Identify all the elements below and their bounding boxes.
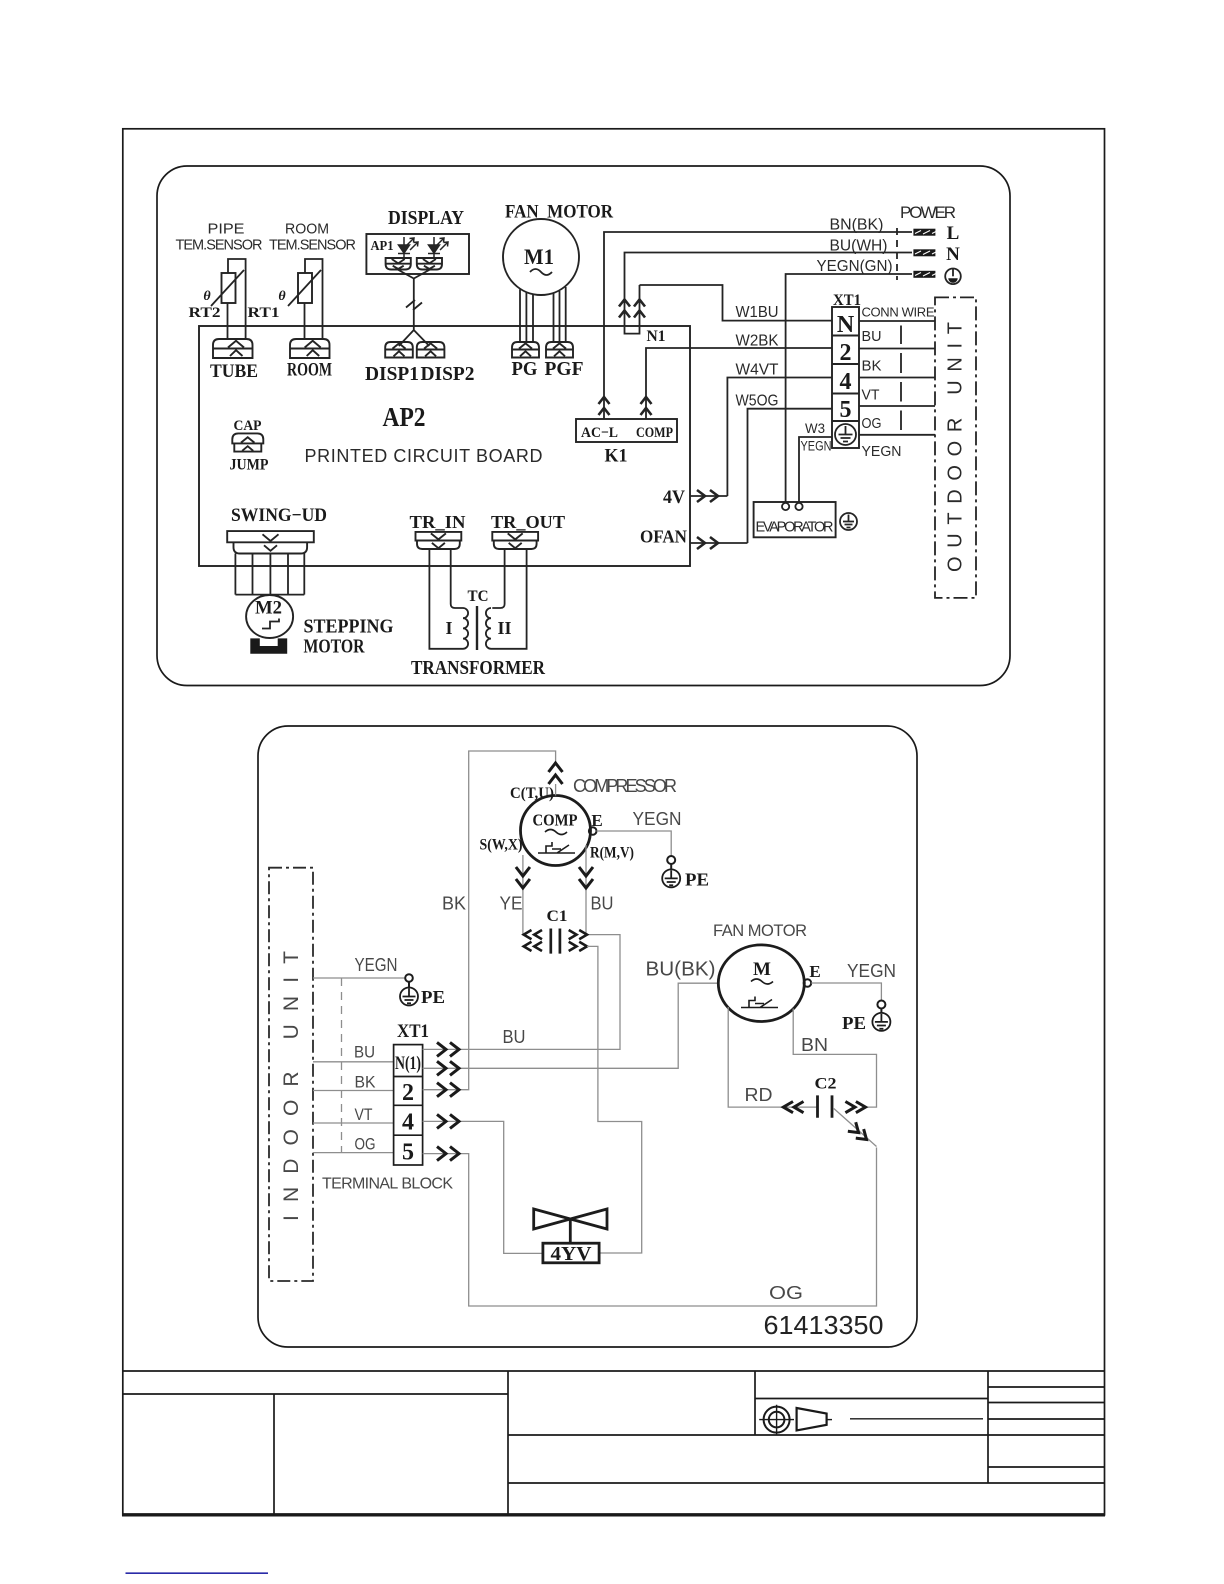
svg-text:MOTOR: MOTOR bbox=[304, 636, 365, 658]
svg-text:DISPLAY: DISPLAY bbox=[388, 207, 464, 229]
svg-text:L: L bbox=[947, 223, 960, 244]
wire RT1 top loop bbox=[305, 259, 323, 339]
svg-text:YEGN: YEGN bbox=[801, 439, 832, 454]
svg-text:OG: OG bbox=[355, 1135, 376, 1154]
title block right column row line 4 bbox=[988, 1466, 1105, 1468]
wire VT to 4YV bbox=[423, 1121, 543, 1253]
wire compressor R to C1 bbox=[585, 845, 587, 935]
wire BU(WH) power N bbox=[625, 253, 913, 300]
evaporator box bbox=[754, 502, 836, 537]
svg-text:N(1): N(1) bbox=[395, 1053, 421, 1074]
connector DISP2 bbox=[417, 342, 445, 358]
svg-text:BU: BU bbox=[354, 1043, 375, 1062]
svg-text:STEPPING: STEPPING bbox=[304, 616, 394, 638]
svg-text:YEGN(GN): YEGN(GN) bbox=[817, 258, 893, 275]
PE terminal fan bbox=[877, 1001, 885, 1009]
title block rule line bbox=[850, 1418, 983, 1420]
svg-text:2: 2 bbox=[402, 1080, 414, 1106]
connector PGF bbox=[546, 342, 573, 358]
svg-text:EVAPORATOR: EVAPORATOR bbox=[756, 520, 834, 536]
LED D1 bbox=[398, 237, 410, 258]
svg-text:TEM.SENSOR: TEM.SENSOR bbox=[176, 238, 263, 254]
svg-text:VT: VT bbox=[355, 1105, 373, 1124]
wire OG to C2 bbox=[423, 1148, 877, 1307]
svg-text:RT2: RT2 bbox=[189, 305, 221, 321]
title block vertical x988 bbox=[987, 1371, 989, 1483]
svg-text:TR_OUT: TR_OUT bbox=[491, 512, 565, 532]
svg-text:BU: BU bbox=[862, 329, 882, 345]
svg-text:TUBE: TUBE bbox=[210, 361, 258, 382]
svg-text:61413350: 61413350 bbox=[764, 1310, 884, 1340]
svg-text:POWER: POWER bbox=[900, 203, 956, 222]
connector N1 bracket bbox=[625, 327, 640, 334]
indoor unit diagram rounded enclosure bbox=[157, 166, 1010, 686]
svg-text:AP1: AP1 bbox=[371, 239, 394, 254]
title block right column row line 3 bbox=[988, 1418, 1105, 1420]
PE earth symbol compressor bbox=[662, 869, 680, 887]
wire RD fan to C2 bbox=[728, 1007, 817, 1107]
XT1 earth cell symbol bbox=[835, 424, 856, 445]
C2 right plug arrows bbox=[845, 1102, 865, 1113]
display plug upper left bbox=[386, 258, 411, 270]
title block second line bbox=[123, 1393, 508, 1395]
display plug upper right bbox=[417, 258, 442, 270]
wire BN(BK) power L bbox=[604, 232, 912, 419]
outdoor unit dash-dot box bbox=[935, 297, 976, 598]
svg-text:θ: θ bbox=[278, 289, 286, 304]
svg-text:RT1: RT1 bbox=[248, 305, 280, 321]
wire BN fan to C2 bbox=[793, 1009, 876, 1108]
svg-text:TRANSFORMER: TRANSFORMER bbox=[411, 657, 545, 679]
evaporator terminal circles bbox=[782, 503, 789, 510]
svg-text:XT1: XT1 bbox=[397, 1021, 429, 1042]
wire display merge V bbox=[398, 270, 430, 327]
C2 left plug arrows bbox=[783, 1102, 803, 1113]
svg-text:TR_IN: TR_IN bbox=[410, 512, 466, 532]
display board AP1 box bbox=[366, 234, 469, 274]
svg-text:BK: BK bbox=[355, 1073, 377, 1092]
wire RT2 top loop bbox=[228, 259, 246, 339]
wire C1 bottom to 4YV bbox=[587, 946, 642, 1253]
svg-text:TC: TC bbox=[468, 588, 489, 605]
connector TR_IN bbox=[416, 532, 462, 549]
projection symbol cone frustum bbox=[797, 1408, 827, 1430]
svg-text:W2BK: W2BK bbox=[736, 333, 779, 350]
svg-text:M2: M2 bbox=[255, 598, 282, 619]
power terminal bar L bbox=[913, 229, 935, 236]
C1 right plug arrows bbox=[569, 930, 587, 951]
title block right column row line 1 bbox=[988, 1386, 1105, 1388]
arrows XT1 N1 row2 bbox=[437, 1061, 459, 1075]
svg-text:TEM.SENSOR: TEM.SENSOR bbox=[269, 238, 356, 254]
title block vertical x508 bbox=[507, 1371, 509, 1515]
K1 input arrows bbox=[599, 397, 652, 415]
arrows XT1 N1 row1 bbox=[437, 1042, 459, 1056]
wire OFAN with arrows bbox=[690, 542, 748, 544]
svg-text:K1: K1 bbox=[605, 446, 628, 467]
thermistor RT1 bbox=[298, 273, 312, 303]
power earth symbol bbox=[945, 269, 961, 285]
svg-text:CAP: CAP bbox=[234, 418, 262, 434]
svg-text:W5OG: W5OG bbox=[736, 393, 779, 410]
svg-text:OFAN: OFAN bbox=[640, 527, 687, 547]
COMP protector glyph bbox=[538, 842, 575, 853]
svg-text:PE: PE bbox=[842, 1013, 866, 1033]
svg-text:N: N bbox=[837, 312, 855, 338]
page frame bottom thick line bbox=[122, 1513, 1105, 1516]
svg-text:5: 5 bbox=[840, 397, 852, 423]
svg-text:M: M bbox=[753, 959, 771, 980]
arrows XT1 cell4 bbox=[437, 1114, 459, 1128]
svg-text:M1: M1 bbox=[524, 244, 554, 269]
svg-text:COMP: COMP bbox=[636, 425, 673, 441]
wire YEGN fan earth bbox=[811, 983, 881, 1000]
terminal block XT1 outdoor bbox=[394, 1045, 423, 1165]
connector ROOM bbox=[290, 339, 330, 358]
svg-text:XT1: XT1 bbox=[833, 292, 861, 309]
power cable dashed tie bbox=[896, 228, 898, 280]
wire RT2 left pin bbox=[227, 303, 229, 339]
svg-text:COMP: COMP bbox=[533, 811, 578, 830]
wires M1 to PG PGF bbox=[520, 287, 566, 342]
compressor E terminal circle bbox=[589, 827, 597, 835]
svg-text:2: 2 bbox=[840, 340, 852, 366]
conn wire tie marks bbox=[900, 326, 902, 431]
svg-text:C(T,U): C(T,U) bbox=[510, 785, 554, 802]
svg-text:PG: PG bbox=[512, 358, 538, 380]
projection symbol axis tick bbox=[827, 1419, 832, 1421]
svg-text:CONN WIRE: CONN WIRE bbox=[862, 305, 935, 320]
wire OG diagonal to C2 bbox=[834, 1109, 877, 1147]
svg-text:YEGN: YEGN bbox=[862, 444, 902, 460]
4-way valve bowtie bbox=[534, 1209, 607, 1229]
wire BU indoor bbox=[313, 1061, 394, 1063]
relay K1 box bbox=[576, 419, 677, 442]
M2 step glyph bbox=[262, 619, 279, 629]
svg-text:BN(BK): BN(BK) bbox=[830, 217, 884, 234]
svg-text:DISP2: DISP2 bbox=[421, 363, 475, 385]
title block projection cell divider bbox=[755, 1398, 988, 1400]
svg-text:PIPE: PIPE bbox=[208, 222, 245, 238]
svg-text:BN: BN bbox=[801, 1035, 828, 1055]
svg-text:N: N bbox=[946, 244, 960, 265]
svg-text:C1: C1 bbox=[547, 908, 568, 925]
capacitor C2 plates bbox=[818, 1095, 833, 1117]
svg-text:BK: BK bbox=[862, 359, 882, 375]
4YV stem bbox=[569, 1219, 572, 1243]
wire VT indoor bbox=[313, 1122, 394, 1124]
svg-text:YE: YE bbox=[500, 894, 523, 914]
arrows XT1 cell2 bbox=[437, 1083, 459, 1097]
indoor unit dash-dot box bbox=[269, 868, 313, 1281]
svg-text:RD: RD bbox=[745, 1085, 773, 1105]
wire W2BK to K1 COMP bbox=[646, 348, 832, 419]
svg-text:PE: PE bbox=[685, 870, 709, 890]
blue underline mark bottom left bbox=[126, 1572, 269, 1574]
svg-text:4: 4 bbox=[402, 1110, 414, 1136]
arrows R pin bbox=[579, 867, 593, 888]
indoor cable dashed tie bbox=[341, 978, 343, 1153]
svg-text:PGF: PGF bbox=[545, 358, 584, 380]
projection symbol crosshair bbox=[759, 1405, 794, 1435]
svg-text:FAN MOTOR: FAN MOTOR bbox=[505, 202, 613, 223]
projection symbol circles bbox=[764, 1407, 790, 1433]
fan E terminal circle bbox=[804, 979, 812, 987]
PE earth symbol indoor bbox=[400, 988, 418, 1006]
transformer core bbox=[476, 606, 478, 650]
M tilde bbox=[751, 979, 773, 984]
fan motor circle bbox=[718, 945, 804, 1022]
4YV coil box bbox=[543, 1243, 599, 1263]
transformer TC primary wiring bbox=[429, 549, 463, 649]
svg-text:DISP1: DISP1 bbox=[365, 363, 419, 385]
svg-text:W4VT: W4VT bbox=[736, 362, 779, 379]
svg-text:W3: W3 bbox=[805, 421, 825, 436]
wire W5OG from OFAN bbox=[748, 409, 833, 543]
title block vertical x274 bbox=[273, 1394, 275, 1515]
title block right column row line 2 bbox=[988, 1402, 1105, 1404]
arrows XT1 cell5 bbox=[437, 1147, 459, 1161]
svg-text:ROOM: ROOM bbox=[285, 222, 329, 238]
svg-text:JUMP: JUMP bbox=[230, 457, 269, 474]
wire BU long to C1 bbox=[423, 935, 620, 1050]
title block row line y1435 bbox=[508, 1434, 1105, 1436]
transformer secondary wiring bbox=[491, 549, 527, 649]
wire display split below board edge bbox=[399, 326, 430, 346]
arrows S pin bbox=[516, 867, 530, 888]
compressor circle COMP bbox=[521, 796, 591, 866]
evaporator earth symbol bbox=[840, 513, 857, 530]
svg-text:VT: VT bbox=[862, 388, 880, 404]
svg-text:YEGN: YEGN bbox=[355, 955, 398, 975]
PE terminal compressor bbox=[667, 856, 675, 864]
PE earth symbol fan bbox=[872, 1013, 890, 1031]
svg-text:5: 5 bbox=[402, 1140, 414, 1166]
svg-text:OG: OG bbox=[862, 416, 882, 432]
COMP tilde bbox=[545, 830, 567, 835]
wire YEGN compressor earth bbox=[597, 831, 672, 856]
wire YEGN(GN) power earth bbox=[786, 274, 912, 502]
svg-text:BK: BK bbox=[442, 894, 466, 914]
svg-text:AC−L: AC−L bbox=[581, 425, 618, 441]
svg-text:I: I bbox=[445, 618, 452, 638]
wire compressor S to C1 bbox=[522, 855, 524, 935]
title block vertical x755 bbox=[754, 1371, 756, 1435]
connector TUBE bbox=[213, 339, 253, 358]
compressor input arrows bbox=[549, 763, 563, 784]
wire OG indoor bbox=[313, 1152, 394, 1154]
connector PG bbox=[512, 342, 539, 358]
wire W4VT from 4V bbox=[727, 378, 832, 497]
svg-text:N1: N1 bbox=[647, 328, 666, 345]
display bus slash marks bbox=[406, 300, 422, 310]
transformer coil II bbox=[486, 608, 491, 649]
wires swing to stepping motor comb bbox=[235, 554, 304, 595]
LED D2 bbox=[428, 237, 440, 258]
power terminal bar earth bbox=[913, 271, 935, 278]
svg-text:SWING−UD: SWING−UD bbox=[231, 505, 327, 526]
connector TR_OUT bbox=[492, 532, 538, 549]
svg-text:4V: 4V bbox=[663, 487, 685, 508]
svg-text:4YV: 4YV bbox=[551, 1243, 593, 1265]
wire BK to compressor bbox=[423, 751, 556, 1090]
wire W1BU path from N1 bbox=[640, 285, 833, 321]
svg-text:E: E bbox=[809, 962, 820, 981]
svg-text:PE: PE bbox=[421, 987, 445, 1007]
svg-text:PRINTED CIRCUIT BOARD: PRINTED CIRCUIT BOARD bbox=[305, 446, 543, 466]
wire RT1 left pin bbox=[304, 303, 306, 339]
svg-text:TERMINAL BLOCK: TERMINAL BLOCK bbox=[322, 1176, 453, 1193]
svg-text:COMPRESSOR: COMPRESSOR bbox=[573, 776, 677, 796]
svg-text:S(W,X): S(W,X) bbox=[480, 837, 523, 854]
AP2 printed circuit board box bbox=[199, 326, 690, 566]
svg-text:R(M,V): R(M,V) bbox=[590, 845, 634, 862]
thermistor RT2 bbox=[222, 273, 236, 303]
svg-text:OG: OG bbox=[769, 1283, 803, 1303]
transformer coil I bbox=[463, 608, 468, 649]
PE terminal indoor bbox=[405, 974, 413, 982]
wire BK indoor bbox=[313, 1090, 394, 1092]
svg-text:BU(BK): BU(BK) bbox=[646, 959, 716, 981]
svg-text:II: II bbox=[497, 618, 511, 638]
svg-text:W1BU: W1BU bbox=[736, 304, 779, 321]
page frame border bbox=[123, 129, 1105, 1515]
connector DISP1 bbox=[385, 342, 413, 358]
svg-text:AP2: AP2 bbox=[383, 402, 426, 432]
capacitor C1 plates bbox=[551, 929, 560, 954]
wire YEGN indoor earth bbox=[313, 977, 405, 979]
connector SWING-UD bbox=[227, 531, 314, 553]
svg-text:BU: BU bbox=[503, 1027, 526, 1047]
M protector glyph bbox=[741, 997, 778, 1008]
svg-text:BU: BU bbox=[591, 894, 614, 914]
svg-text:4: 4 bbox=[840, 369, 852, 395]
title block row line y1483 bbox=[508, 1482, 1105, 1484]
svg-text:FAN MOTOR: FAN MOTOR bbox=[713, 922, 807, 940]
connector N1 pins with arrows bbox=[625, 285, 640, 326]
terminal block XT1 indoor bbox=[832, 307, 859, 448]
wire to fan motor BU(BK) bbox=[423, 983, 719, 1068]
arrows OG diagonal bbox=[848, 1122, 871, 1144]
fan motor M1 circle bbox=[503, 219, 579, 295]
C1 left plug arrows bbox=[524, 930, 542, 951]
svg-text:OUTDOOR UNIT: OUTDOOR UNIT bbox=[945, 322, 967, 572]
title block top line bbox=[123, 1370, 1105, 1372]
power terminal bar N bbox=[913, 249, 935, 256]
conn wires XT1 to outdoor unit bbox=[859, 321, 935, 435]
stepping motor base black bracket bbox=[250, 638, 287, 653]
wire 4V with arrows bbox=[690, 495, 727, 497]
stepping motor M2 circle bbox=[246, 595, 293, 638]
svg-text:ROOM: ROOM bbox=[287, 360, 332, 381]
svg-text:C2: C2 bbox=[815, 1076, 837, 1093]
svg-text:YEGN: YEGN bbox=[847, 961, 896, 981]
svg-text:θ: θ bbox=[203, 289, 211, 304]
wire evaporator earth to XT1 bbox=[799, 437, 832, 502]
outdoor unit diagram rounded enclosure bbox=[258, 726, 917, 1347]
svg-text:YEGN: YEGN bbox=[633, 809, 682, 829]
